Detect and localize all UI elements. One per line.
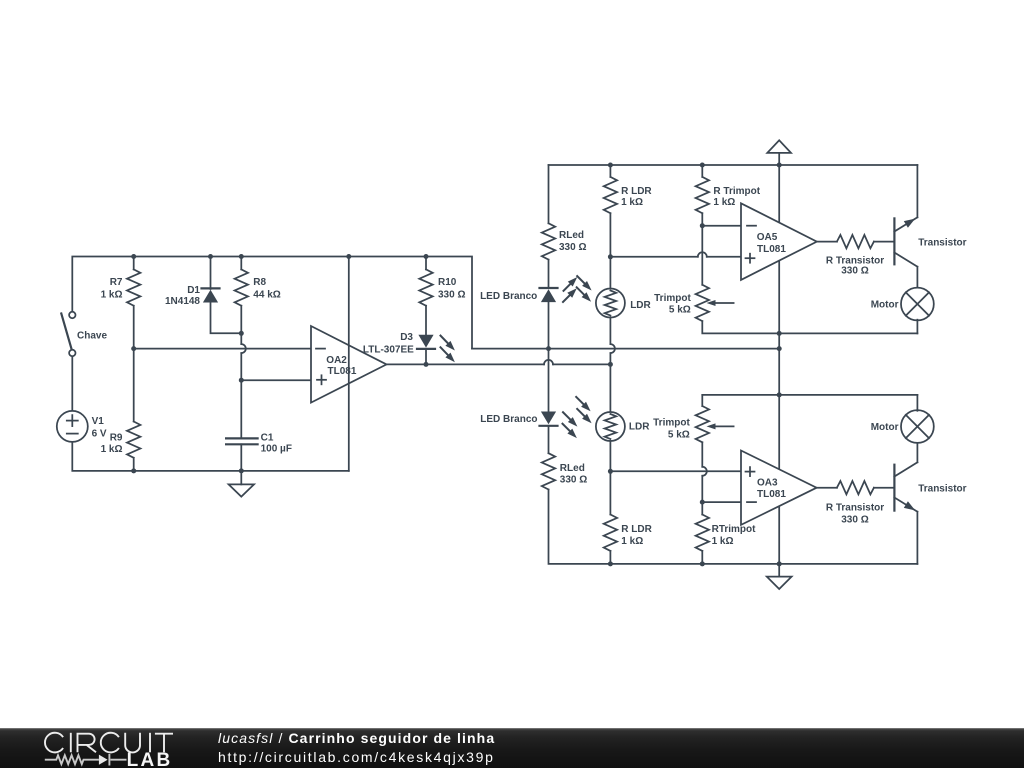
- LED D3 arrows: [441, 336, 452, 347]
- node junction power column ground rail: [777, 561, 782, 566]
- wire transistor top collector to motor: [916, 267, 918, 289]
- svg-text:R LDR: R LDR: [621, 186, 652, 197]
- svg-text:V1: V1: [92, 416, 105, 427]
- wire OA5 minus input: [702, 225, 741, 227]
- node junction mid rail power column: [777, 346, 782, 351]
- LDR bottom arrows: [576, 397, 587, 408]
- svg-text:RLed: RLed: [560, 463, 585, 474]
- LED Branco top arrows: [564, 281, 574, 291]
- node junction R9 bottom rail: [131, 468, 136, 473]
- wire motor bottom to rail: [916, 395, 918, 411]
- LED Branco bottom column: [548, 349, 550, 412]
- wire OA3 minus input: [702, 501, 741, 503]
- svg-text:C1: C1: [261, 432, 274, 443]
- svg-text:Trimpot: Trimpot: [654, 293, 691, 304]
- wire motor top to rail: [916, 320, 918, 334]
- svg-text:1 kΩ: 1 kΩ: [101, 289, 123, 300]
- logo letter I: [149, 733, 151, 753]
- svg-text:LAB: LAB: [127, 750, 173, 768]
- node junction R8 top rail: [239, 254, 244, 259]
- resistor R10 330: [425, 257, 427, 270]
- svg-text:Trimpot: Trimpot: [653, 418, 690, 429]
- svg-text:R Transistor: R Transistor: [826, 503, 884, 514]
- svg-text:R9: R9: [110, 433, 123, 444]
- svg-text:LDR: LDR: [629, 422, 650, 433]
- wire bottom-left rail: [72, 442, 349, 471]
- footer bar: [0, 728, 1024, 768]
- wire central power column: [778, 153, 780, 564]
- wire transistor bottom collector to motor: [916, 442, 918, 462]
- logo letter C: [45, 733, 63, 753]
- svg-text:6 V: 6 V: [92, 428, 107, 439]
- node junction power column vcc rail: [777, 163, 782, 168]
- capacitor C1 100uF: [226, 437, 258, 439]
- node junction LED column mid rail: [546, 346, 551, 351]
- wire R Trimpot to Trimpot: [701, 226, 703, 285]
- wire R7 node to OA2 minus input: [134, 348, 311, 350]
- wire D1 to node: [211, 303, 242, 334]
- svg-text:RLed: RLed: [559, 230, 584, 241]
- resistor R8 44k: [240, 257, 242, 270]
- resistor R Transistor top 330: [837, 235, 874, 248]
- wire switch to V1: [71, 356, 73, 411]
- svg-text:LED Branco: LED Branco: [480, 414, 537, 425]
- node junction LDR plus node: [608, 254, 613, 259]
- svg-text:Transistor: Transistor: [918, 484, 966, 495]
- svg-text:330 Ω: 330 Ω: [560, 474, 587, 485]
- wire C1 node to OA2 plus input: [241, 379, 311, 381]
- wire bottom block top rail: [702, 394, 917, 396]
- wire top rail: [549, 164, 918, 166]
- logo letter C: [101, 733, 119, 753]
- svg-text:1 kΩ: 1 kΩ: [713, 197, 735, 208]
- svg-text:5 kΩ: 5 kΩ: [668, 429, 690, 440]
- motor top: [901, 288, 934, 321]
- power rail VCC symbol: [767, 140, 791, 153]
- LED Branco bottom arrows: [563, 412, 574, 423]
- wire transistor top emitter to rail: [916, 165, 918, 217]
- node junction D1-R8 node: [239, 331, 244, 336]
- node junction trimpot minus node: [700, 223, 705, 228]
- wire top-left rail: [72, 257, 472, 349]
- potentiometer Trimpot bottom 5k: [701, 395, 703, 406]
- resistor RTrimpot bottom 1k: [696, 515, 709, 551]
- svg-text:D1: D1: [187, 285, 200, 296]
- op-amp OA3 TL081: [741, 451, 817, 525]
- svg-text:44 kΩ: 44 kΩ: [253, 289, 280, 300]
- ground bottom: [778, 564, 780, 577]
- wire mid rail to comparators: [472, 348, 779, 350]
- LDR bottom: [596, 412, 625, 441]
- voltage source V1 6V: [57, 411, 88, 442]
- svg-text:LTL-307EE: LTL-307EE: [363, 344, 414, 355]
- transistor top NPN: [894, 217, 917, 266]
- resistor R Transistor bottom 330: [837, 481, 874, 494]
- resistor R9 1k: [127, 422, 140, 458]
- node junction trimpot2 minus node: [700, 500, 705, 505]
- wire vertical through OA2: [348, 257, 350, 471]
- svg-text:1 kΩ: 1 kΩ: [101, 444, 123, 455]
- node junction R LDR2 ground rail: [608, 561, 613, 566]
- wire transistor bottom emitter to rail: [916, 512, 918, 564]
- CircuitLab logo: [0, 728, 200, 768]
- svg-text:1 kΩ: 1 kΩ: [621, 197, 643, 208]
- node junction R Trimpot vcc rail: [700, 163, 705, 168]
- transistor bottom NPN: [894, 462, 917, 511]
- svg-text:OA3: OA3: [757, 478, 778, 489]
- resistor R Trimpot top 1k: [701, 165, 703, 177]
- node junction power column lower motor rail: [777, 392, 782, 397]
- resistor RLed bottom 330: [548, 426, 550, 453]
- diode D1 1N4148: [210, 257, 212, 290]
- svg-text:R Trimpot: R Trimpot: [713, 186, 760, 197]
- wire trimpot to rail corner: [702, 321, 917, 333]
- svg-text:LDR: LDR: [630, 300, 651, 311]
- wire OA2 output: [387, 363, 545, 365]
- node junction C1 plus node: [239, 378, 244, 383]
- motor bottom: [901, 410, 934, 443]
- svg-text:TL081: TL081: [328, 366, 357, 377]
- logo letter R: [78, 734, 97, 753]
- ground left: [240, 471, 242, 485]
- svg-text:Motor: Motor: [871, 422, 899, 433]
- svg-text:1 kΩ: 1 kΩ: [712, 536, 734, 547]
- node junction C1 ground rail: [239, 468, 244, 473]
- logo diode: [99, 755, 108, 765]
- wire OA5 output: [817, 241, 837, 243]
- node junction feedback top rail: [346, 254, 351, 259]
- svg-text:TL081: TL081: [757, 244, 786, 255]
- svg-text:OA2: OA2: [326, 355, 347, 366]
- svg-text:R7: R7: [110, 277, 123, 288]
- svg-text:RTrimpot: RTrimpot: [712, 524, 757, 535]
- svg-text:330 Ω: 330 Ω: [438, 289, 465, 300]
- node junction D1 top rail: [208, 254, 213, 259]
- footer title text: [218, 729, 495, 748]
- node junction R LDR vcc rail: [608, 163, 613, 168]
- svg-text:TL081: TL081: [757, 489, 786, 500]
- switch SW1 Chave: [61, 312, 75, 356]
- logo schematic line: [45, 754, 127, 766]
- svg-text:R8: R8: [253, 277, 266, 288]
- node junction OA2 out to LDR column: [608, 362, 613, 367]
- footer url text: [218, 748, 495, 767]
- wire RLed bottom to rail: [549, 490, 918, 564]
- wire LDR bottom to R LDR bottom: [609, 441, 611, 515]
- node junction power column upper motor rail: [777, 331, 782, 336]
- svg-text:330 Ω: 330 Ω: [841, 265, 868, 276]
- wire OA5 plus input with hop: [610, 256, 697, 258]
- wire R8 to C1 with hop: [240, 306, 242, 344]
- logo letter I: [70, 733, 72, 753]
- wire OA3 output: [817, 487, 837, 489]
- LED D3 LTL-307EE: [418, 335, 433, 348]
- wire R7 to R9: [133, 306, 135, 422]
- svg-text:330 Ω: 330 Ω: [559, 242, 586, 253]
- potentiometer Trimpot top 5k: [696, 285, 709, 321]
- node junction D3 output node: [424, 362, 429, 367]
- wire trimpot bottom column with hop: [701, 442, 703, 467]
- svg-text:1N4148: 1N4148: [165, 296, 200, 307]
- node junction R7-R9 divider node: [131, 346, 136, 351]
- node junction LDR2 plus node: [608, 469, 613, 474]
- svg-text:OA5: OA5: [757, 232, 778, 243]
- wire OA3 plus input: [610, 470, 741, 472]
- LED Branco top: [540, 287, 558, 289]
- LED Branco bottom: [541, 412, 556, 425]
- logo letter T: [155, 734, 173, 753]
- resistor RLed top 330: [548, 165, 550, 223]
- resistor R LDR bottom 1k: [604, 515, 617, 551]
- resistor R7 1k: [133, 257, 135, 270]
- LDR top: [596, 289, 625, 318]
- node junction R7 top rail: [131, 254, 136, 259]
- svg-text:LED Branco: LED Branco: [480, 291, 537, 302]
- svg-text:R10: R10: [438, 277, 457, 288]
- svg-text:5 kΩ: 5 kΩ: [669, 305, 691, 316]
- LDR top arrows: [577, 276, 588, 287]
- svg-text:1 kΩ: 1 kΩ: [621, 536, 643, 547]
- svg-text:R LDR: R LDR: [621, 524, 652, 535]
- op-amp OA5 TL081: [741, 203, 817, 280]
- wire LDR top down with hop: [609, 318, 611, 345]
- svg-text:100 µF: 100 µF: [261, 443, 292, 454]
- op-amp OA2 TL081: [311, 326, 387, 403]
- svg-text:D3: D3: [400, 332, 413, 343]
- logo letter U: [125, 733, 140, 753]
- svg-text:Chave: Chave: [77, 331, 107, 342]
- svg-text:330 Ω: 330 Ω: [841, 514, 868, 525]
- node junction R10 top rail: [424, 254, 429, 259]
- node junction RTrimpot ground rail: [700, 561, 705, 566]
- svg-text:Motor: Motor: [871, 300, 899, 311]
- resistor R LDR top 1k: [609, 165, 611, 177]
- svg-text:Transistor: Transistor: [918, 238, 966, 249]
